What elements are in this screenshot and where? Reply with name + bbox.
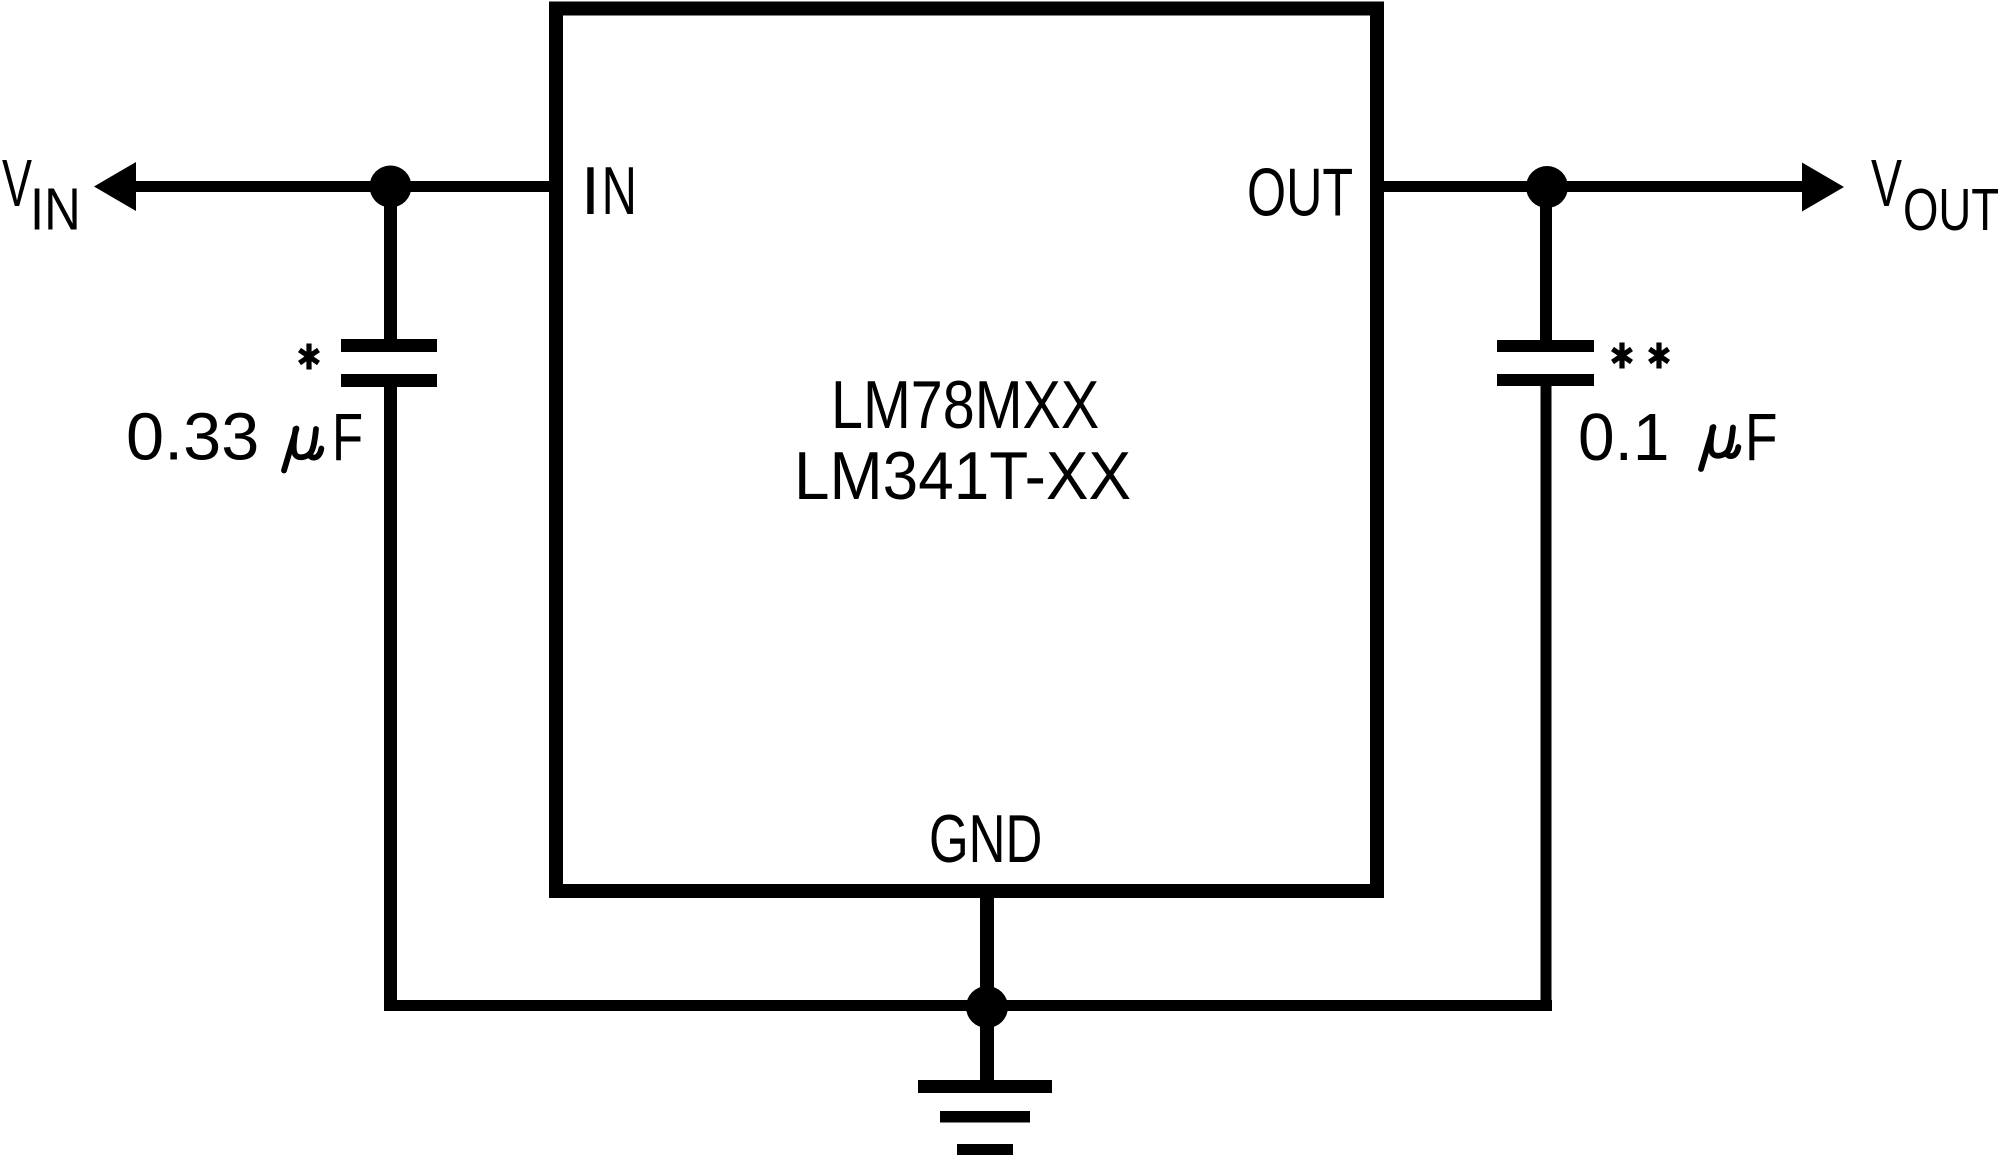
- label ** for C2 note: [1613, 343, 1669, 369]
- label * for C1 note: [300, 344, 319, 370]
- svg-text:N: N: [602, 153, 637, 229]
- capacitor C1 top plate: [341, 339, 437, 352]
- ground bus wire across bottom: [384, 1000, 1552, 1011]
- arrowhead pointing right to VOUT: [1802, 163, 1844, 212]
- net label VOUT: [1871, 146, 1998, 243]
- ground symbol bar 1: [918, 1080, 1052, 1093]
- svg-text:0.33: 0.33: [126, 400, 259, 475]
- wire: OUT pin to VOUT arrow: [1376, 181, 1804, 192]
- ground symbol bar 3: [957, 1144, 1013, 1155]
- svg-text:V: V: [2, 146, 32, 221]
- svg-text:F: F: [332, 400, 363, 475]
- regulator U1 body (LM78MXX / LM341T-XX): [556, 9, 1377, 892]
- capacitor C2 bottom plate: [1497, 374, 1594, 386]
- svg-text:OUT: OUT: [1903, 177, 1998, 243]
- svg-text:V: V: [1871, 146, 1902, 221]
- value label 0.1 uF: [1578, 400, 1778, 475]
- wire: junction down to C2: [1540, 187, 1552, 346]
- wire: junction to ground symbol: [980, 1007, 994, 1087]
- node: VOUT junction dot: [1526, 166, 1568, 208]
- svg-text:GND: GND: [929, 801, 1042, 877]
- wire: C1 bottom to ground bus: [384, 381, 397, 1006]
- svg-text:IN: IN: [30, 176, 81, 242]
- svg-text:F: F: [1745, 400, 1778, 475]
- wire: GND pin stub: [980, 890, 994, 1007]
- value label 0.33 uF: [126, 400, 363, 476]
- svg-text:OUT: OUT: [1247, 155, 1353, 231]
- svg-text:LM78MXX: LM78MXX: [831, 367, 1099, 443]
- arrowhead pointing left to VIN: [94, 162, 136, 211]
- svg-text:I: I: [581, 153, 600, 229]
- capacitor C2 top plate: [1497, 340, 1594, 352]
- node: ground junction dot: [966, 986, 1008, 1028]
- svg-text:LM341T-XX: LM341T-XX: [794, 438, 1131, 514]
- ground symbol bar 2: [940, 1111, 1030, 1123]
- wire: IN pin to VIN arrow: [116, 181, 557, 192]
- wire: junction down to C1: [384, 187, 397, 347]
- svg-text:0.1: 0.1: [1578, 400, 1669, 475]
- wire: C2 bottom to ground bus: [1541, 380, 1552, 1006]
- node: VIN junction dot: [370, 166, 412, 208]
- net label VIN: [2, 146, 81, 242]
- pin label IN: [581, 153, 637, 229]
- capacitor C1 bottom plate: [341, 374, 437, 387]
